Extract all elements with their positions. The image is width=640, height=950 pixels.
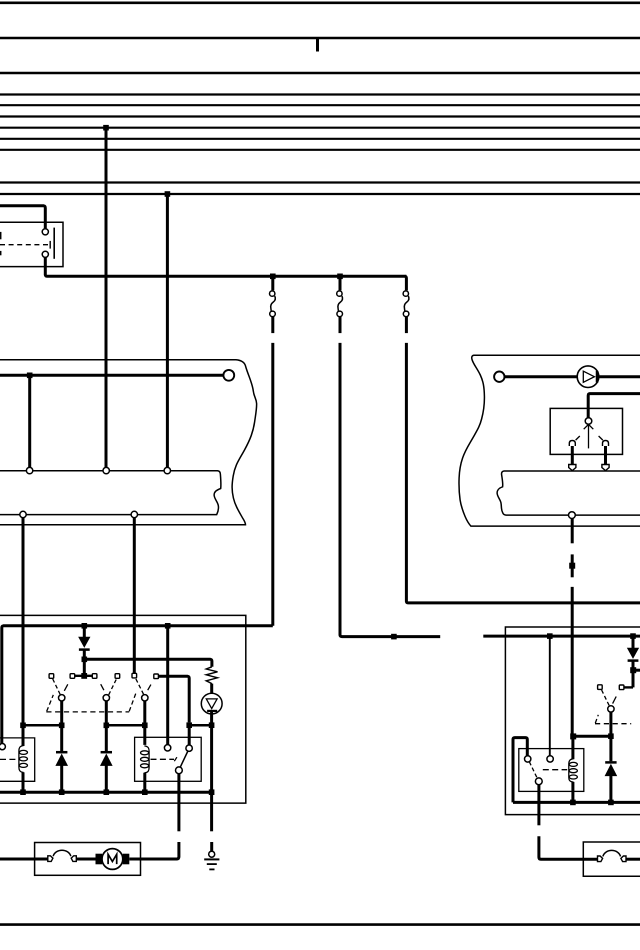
motor M1 body	[102, 849, 123, 870]
switch S1 cut-off terminal fragment upper	[0, 232, 2, 239]
junction J2 on feed wire	[165, 623, 171, 629]
bus wire 3	[0, 93, 640, 95]
diode D1 anode wire	[83, 626, 86, 638]
SW4 actuator arrow	[584, 424, 594, 429]
switch SW5 pole	[608, 706, 614, 712]
junction dots ground bus	[20, 789, 214, 795]
node row segment c	[189, 724, 211, 727]
SW3 pole B3	[142, 695, 148, 701]
SW3 alternate dash	[148, 685, 151, 691]
SW1 pole B1	[59, 695, 65, 701]
relay RY2 box	[135, 737, 202, 781]
diode D2a triangle	[56, 755, 67, 766]
relay RY3 coil wire top	[571, 736, 574, 759]
wire drop 2 lower with stub	[340, 343, 440, 637]
right inner box terminal circle	[569, 512, 576, 519]
bus wire 1	[0, 37, 640, 39]
diode D4 cathode bar	[628, 659, 639, 662]
relay RY1 contact terminal	[0, 744, 5, 750]
relay RY3 linkage dashed	[543, 769, 567, 771]
wire node row to ground bus	[210, 725, 213, 792]
relay RY2 linkage tick	[174, 757, 177, 761]
LED L1 circle	[201, 693, 222, 714]
junction J6 on feed	[630, 633, 636, 639]
relay RY3 box	[519, 749, 584, 792]
wire from S1 terminal 2 to node row	[45, 257, 406, 276]
bus wire 10	[0, 193, 640, 195]
right ground bus	[513, 801, 640, 804]
SW2 pole B2	[103, 695, 109, 701]
motor M1 brush right	[123, 854, 130, 865]
switch S1 contact bar	[53, 228, 55, 259]
LED L1 triangle	[206, 699, 217, 709]
connector stub on bus 1	[316, 38, 319, 52]
in-line connector C1	[270, 291, 276, 317]
relay RY1 coil wire bottom	[22, 772, 25, 792]
junction dots node row	[20, 722, 214, 728]
junction on bus 6	[103, 125, 109, 131]
SW4 left contact wire	[571, 446, 574, 465]
terminal circle lower (pin 5)	[131, 511, 137, 517]
relay RY2 pole terminal	[176, 767, 183, 774]
junction J3 below D1	[82, 657, 88, 663]
wire connector to motor	[76, 858, 95, 861]
wire LED to node row	[210, 711, 213, 725]
SW3 blade dashed	[136, 679, 144, 695]
relay RY2 blade	[180, 751, 188, 767]
switch SW1 terminal T1	[49, 674, 54, 679]
switch S1 terminal 1	[42, 229, 48, 235]
right relay unit box	[505, 627, 640, 815]
connector cup pair right	[71, 856, 76, 862]
left block torn outline	[0, 360, 257, 525]
relay RY1 coil	[19, 746, 28, 773]
wire drop 1 upper	[271, 276, 274, 290]
right unit feed wire	[483, 635, 640, 638]
wire J2 down to relay RY2 contact	[166, 626, 169, 745]
male pin terminal left	[569, 465, 576, 471]
right block torn outline	[459, 355, 640, 526]
SW5 linkage bar dashed	[595, 723, 631, 725]
connector cup left M2	[598, 856, 603, 862]
diode D2b triangle	[101, 755, 112, 766]
diode D5 bar	[605, 761, 616, 764]
junction J8	[608, 733, 614, 739]
connector cup right M2	[621, 856, 626, 862]
wire drop from bus 6	[105, 128, 108, 468]
relay RY3 feed bent wire	[513, 738, 527, 803]
ground wire lower	[210, 842, 213, 851]
junction J7 below D4	[630, 667, 636, 673]
motor M1 brush left	[96, 854, 103, 865]
SW5 linkage riser dashed	[595, 715, 598, 723]
diode D2a wire to bus	[60, 765, 63, 792]
SW5 alternate dash	[613, 697, 617, 704]
relay RY2 coil	[141, 746, 150, 773]
bus wire 4	[0, 104, 640, 106]
SW2 alternate dash	[101, 684, 104, 690]
male pin terminal right	[602, 465, 609, 471]
diode D3 cathode bar	[596, 371, 599, 383]
wire drop 1 middle	[271, 317, 274, 333]
connector jumper arc M2	[603, 850, 621, 856]
junction J1 on feed wire	[82, 623, 88, 629]
page bottom border	[0, 923, 640, 926]
wire drop 3 upper	[405, 276, 407, 290]
relay RY2 coil wire bottom	[143, 773, 146, 793]
relay RY3 coil wire bottom	[571, 782, 574, 803]
junction on stub	[391, 634, 397, 640]
wire drop 1 lower (to control unit)	[271, 343, 274, 626]
junction on block wire	[27, 373, 33, 379]
right block large terminal	[494, 372, 504, 382]
wire RY3 pole down lower to motor M2	[539, 836, 598, 859]
diode D2a bar	[56, 751, 67, 754]
switch S1 actuator tick	[49, 241, 51, 249]
diode D4 triangle	[628, 648, 639, 658]
bus wire 2	[0, 72, 640, 74]
wire RY2 contact B up (junction node)	[188, 722, 191, 745]
ground G1 bar 2	[207, 863, 217, 865]
diode D1 triangle	[79, 637, 90, 647]
wire from pin 5 down to switch SW3	[133, 518, 136, 674]
switch S1 cut-off terminal fragment lower	[0, 251, 2, 255]
diode D2b wire to bus	[105, 765, 108, 792]
wire T6 to RY2 contact B	[159, 676, 190, 722]
SW2 blade dashed	[109, 680, 117, 695]
relay RY3 blade dashed	[529, 762, 537, 779]
diode D4 anode wire	[632, 636, 635, 648]
wire drop 3 lower (to right feed)	[406, 343, 640, 603]
terminal circle on inner box (pin 1)	[26, 467, 32, 473]
junction on bus 10	[165, 191, 171, 197]
motor M1 box	[35, 843, 141, 876]
connector cup pair left	[48, 856, 53, 862]
relay RY2 linkage dashed	[151, 758, 175, 760]
node row segment a	[23, 724, 62, 727]
bus wire 8	[0, 149, 640, 151]
wire resistor to LED	[210, 684, 213, 699]
wire SW5 pole down	[609, 712, 612, 761]
diode D1 cathode bar	[79, 648, 90, 651]
ground bus wire	[0, 791, 212, 794]
SW1 blade dashed	[53, 679, 61, 695]
control unit box outline	[0, 615, 246, 803]
wire drop 3 middle	[405, 317, 408, 333]
wire from diode unit to edge	[599, 375, 640, 378]
junction J4 on bridge	[81, 673, 87, 679]
ground G1 bar 3	[209, 868, 214, 870]
switch SW1 terminal T2	[70, 674, 75, 679]
left inner box (connector row) outline	[0, 471, 221, 515]
wire segment 3 down to relay unit	[571, 587, 574, 736]
node row segment b	[106, 724, 145, 727]
junction node B	[337, 274, 343, 280]
wire B3 down to RY2 coil	[143, 701, 146, 745]
ground wire upper	[210, 792, 213, 831]
SW4 contact cup right	[603, 441, 609, 447]
resistor R1 zigzag	[206, 667, 217, 684]
switch SW3 terminal T5	[132, 673, 137, 678]
wire J5 down to relay RY3 contact	[549, 636, 551, 756]
wire RY2 pole down to motor	[177, 774, 180, 832]
diode D4 cathode wire	[632, 661, 635, 688]
left block large terminal	[223, 370, 234, 381]
right block wire to diode unit	[505, 375, 583, 378]
switch SW5 terminal left	[598, 685, 603, 690]
SW4 dash left	[576, 436, 580, 440]
junction node A	[270, 274, 276, 280]
relay RY1 box	[0, 738, 35, 781]
SW4 blade	[588, 424, 590, 448]
terminal circle on inner box (pin 2)	[103, 467, 109, 473]
wire B1 down	[60, 701, 63, 752]
wire J3 to resistor	[84, 659, 212, 667]
right inner box (connector row) outline	[497, 471, 640, 515]
switch SW5 terminal right	[619, 685, 624, 690]
wire J3 down to switch bridge	[83, 659, 86, 676]
junction J9	[570, 733, 576, 739]
bus wire 6	[0, 127, 640, 129]
relay RY3 contact B terminal	[547, 756, 553, 762]
diode D3 triangle	[583, 371, 594, 382]
SW1 alternate dash	[64, 684, 68, 691]
SW4 contact cup left	[569, 441, 575, 447]
switch S1 feed wire	[0, 206, 45, 229]
linkage riser left dashed	[47, 695, 54, 711]
switch SW2 terminal T3	[92, 674, 97, 679]
wire J8 to relay coil drop	[573, 735, 611, 738]
SW4 common terminal	[585, 418, 592, 425]
relay RY1 linkage dashed	[0, 758, 18, 760]
motor M1 label	[108, 854, 117, 864]
page top border	[0, 1, 640, 4]
connector jumper arc	[53, 850, 71, 856]
wire segment 2 with connector dot	[571, 554, 574, 577]
diode D2b bar	[101, 751, 112, 754]
wire B2 down	[105, 701, 108, 752]
relay RY3 contact A terminal	[525, 756, 531, 762]
relay RY3 pole terminal	[535, 778, 542, 785]
junction J5 on feed	[547, 633, 553, 639]
switch S1 actuator dashed link	[0, 244, 50, 246]
switch bridge T2-T3	[72, 675, 94, 677]
relay RY2 contact A terminal	[164, 745, 170, 751]
wire below right block segment 1	[571, 518, 574, 543]
wire drop 2 upper	[339, 276, 342, 290]
bus wire 9	[0, 181, 640, 183]
diode D5 wire to bus	[609, 776, 612, 803]
switch S1 housing box	[0, 222, 63, 266]
relay RY3 coil	[569, 759, 578, 782]
wire RY3 pole down upper	[537, 785, 540, 826]
wire drop 2 middle	[339, 317, 342, 333]
wire drop inside block	[28, 375, 31, 467]
relay RY1 coil wire top	[22, 723, 25, 746]
ground G1 terminal	[209, 851, 215, 857]
in-line connector C3	[403, 291, 409, 317]
wire connector M2 to edge	[626, 858, 640, 861]
switch S1 terminal 2	[42, 251, 48, 257]
terminal circle lower (pin 4)	[20, 511, 26, 517]
bridge to SW5 terminal	[624, 686, 633, 688]
SW4 right contact wire	[604, 446, 607, 465]
in-line connector C2	[337, 291, 343, 317]
SW4 dash right	[599, 436, 603, 440]
ganged linkage bar dashed	[46, 711, 129, 713]
wire from pin 4 down to control unit	[22, 518, 25, 723]
motor M1 feed wire	[0, 858, 48, 861]
switch SW3 terminal T6	[154, 674, 159, 679]
bus wire 7	[0, 138, 640, 140]
bus wire 5	[0, 115, 640, 117]
relay RY2 contact B terminal	[186, 745, 192, 751]
ground G1 bar 1	[204, 858, 219, 860]
terminal circle on inner box (pin 3)	[164, 467, 170, 473]
junction dots right bus	[570, 800, 614, 806]
left block wire to terminal	[0, 374, 223, 377]
switch SW2 terminal T4	[115, 674, 120, 679]
LED L1 bar	[207, 710, 217, 712]
diode unit D3 circle	[577, 366, 599, 388]
diode D1 cathode wire	[83, 650, 86, 660]
switch SW4 box	[550, 408, 622, 454]
motor M2 box	[583, 842, 640, 876]
linkage riser right dashed	[129, 693, 136, 712]
diode D5 triangle	[605, 765, 616, 776]
connector dot on segment 2	[569, 563, 575, 569]
SW5 blade dashed	[602, 690, 610, 706]
wire J7 to right edge	[633, 669, 640, 672]
wire motor to relay pole	[129, 842, 179, 859]
control unit feed wire	[2, 626, 273, 744]
wire from edge to switch SW4	[588, 394, 640, 418]
wire drop from bus 10	[166, 194, 169, 468]
